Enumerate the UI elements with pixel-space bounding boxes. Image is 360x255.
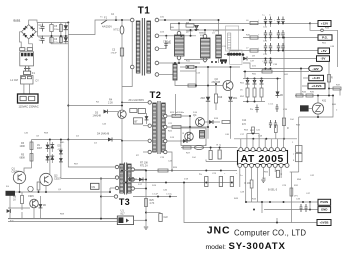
wire diode bridge x60.9 — [60, 140, 62, 179]
wire y59.5 bundle — [184, 59, 208, 61]
capacitor C1 — [41, 24, 45, 32]
svg-text:PSON: PSON — [320, 200, 328, 204]
net label PG — [318, 35, 332, 41]
wire T2 top left — [122, 101, 148, 103]
resistor R1 bleeder — [60, 23, 62, 44]
wire T3 out 3 — [135, 188, 147, 190]
svg-text:431: 431 — [322, 100, 327, 103]
resistor R16 — [253, 88, 256, 97]
wire prot rail y78.5 — [243, 78, 281, 80]
svg-text:LED: LED — [60, 142, 65, 144]
wire +3.3VS stub — [302, 85, 308, 87]
svg-text:+3.3VS: +3.3VS — [311, 84, 321, 88]
svg-text:STPR: STPR — [213, 31, 219, 33]
capacitor C27 — [209, 151, 212, 160]
svg-text:B.B1: B.B1 — [14, 19, 21, 23]
resistor R6 1K — [21, 196, 24, 204]
diode D8 on rail 4 — [243, 57, 247, 61]
wire rail x31.5 — [31, 140, 33, 169]
svg-text:10K: 10K — [262, 178, 266, 180]
T3 terminal right 3 — [131, 187, 134, 190]
second filter caps rail3 — [277, 43, 280, 51]
capacitor C6 electrolytic 220uF/200V — [50, 38, 53, 43]
wire rail2 feedback junction — [283, 37, 285, 39]
resistor R30 — [250, 180, 253, 188]
svg-text:model:: model: — [206, 244, 227, 251]
wire choke L3 top — [204, 30, 206, 35]
svg-text:P.G.: P.G. — [322, 36, 328, 40]
transformer T1 secondary winding — [147, 21, 151, 73]
wire choke to AC inlet left — [23, 84, 25, 94]
wire choke L4 top — [218, 20, 220, 35]
resistor R2 bleeder — [59, 37, 62, 43]
wire PWM bottom pin stubs — [239, 167, 241, 187]
T2 terminal right 4 — [164, 150, 167, 153]
wire T2 left mid — [143, 125, 148, 127]
wire y208 link — [8, 207, 30, 209]
svg-text:RT 10K: RT 10K — [140, 162, 148, 165]
svg-text:AT 2005: AT 2005 — [241, 154, 284, 165]
wire rail6 to +3.3V — [243, 71, 309, 73]
wire DC bus low rail — [51, 43, 68, 45]
diode D22 — [260, 80, 264, 84]
wire standby feed y105.5 — [68, 105, 122, 107]
svg-text:ZD3: ZD3 — [201, 98, 206, 100]
transformer T3 left winding — [120, 164, 124, 193]
diode D14 — [59, 150, 63, 154]
wire DC bus mid rail — [37, 35, 68, 37]
wire AC bridge top lead — [29, 20, 37, 25]
transistor Q7 — [185, 132, 194, 141]
net label +5VSB — [317, 220, 331, 226]
svg-text:JNC: JNC — [207, 225, 231, 237]
svg-text:1N: 1N — [37, 145, 40, 147]
thermistor NTC — [120, 26, 124, 34]
node drive bus x68.3 — [67, 139, 69, 141]
shield box outline — [230, 50, 242, 64]
wire feedback loop right — [299, 96, 333, 118]
wire T2 bottom-left to drive bus — [122, 140, 148, 142]
wire ground bus second line — [8, 220, 118, 222]
wire sec rail 3 to chokes — [159, 62, 200, 64]
wire +3.3V stub — [303, 77, 309, 79]
wire choke L4 bottom — [218, 58, 220, 63]
bridge rectifier B1 — [22, 25, 36, 39]
transformer T2 core — [158, 101, 160, 154]
bridge diode top-left — [23, 26, 27, 30]
U2 top pin wires — [240, 139, 242, 148]
resistor R17 — [260, 88, 263, 97]
wire Q6 to ground — [33, 208, 35, 219]
wire choke L2 bottom — [178, 60, 180, 64]
T1 terminal sec 4 — [155, 61, 159, 65]
svg-text:R21 560: R21 560 — [262, 69, 271, 71]
stub x190 rails — [190, 30, 192, 36]
fuse holder FS1 — [24, 71, 31, 74]
capacitor C3 snubber — [120, 48, 123, 56]
stub above primary feed node — [115, 16, 117, 20]
diode D6 1N4007 — [47, 142, 49, 152]
svg-text:SY-300ATX: SY-300ATX — [229, 241, 286, 252]
capacitor C5 electrolytic 220uF/200V — [50, 25, 53, 32]
svg-text:F.G: F.G — [10, 221, 14, 223]
wire Q2 emitter — [230, 90, 232, 96]
filter capacitors rail2 — [264, 30, 267, 38]
ground at x146 — [144, 227, 148, 229]
capacitor C35 — [218, 150, 221, 159]
node x146 junctions — [145, 179, 147, 181]
svg-text:CY: CY — [35, 79, 39, 83]
wire primary feed — [68, 20, 132, 35]
svg-text:SB340: SB340 — [199, 33, 206, 35]
wire T2 right 2 — [167, 126, 208, 128]
ferrite bead FB1 — [220, 59, 227, 61]
wire bridge right lead — [36, 31, 38, 33]
net label VREF dark — [300, 105, 309, 111]
wire caps left vertical — [37, 23, 39, 37]
resistor R62 above mesh — [252, 127, 255, 134]
wire Q2 collector — [230, 67, 232, 81]
snubber branch wire — [121, 20, 123, 87]
diode D7b — [51, 154, 53, 163]
U2 top pins — [239, 148, 243, 152]
svg-text:2.2K: 2.2K — [108, 101, 113, 104]
svg-text:+12V: +12V — [321, 22, 329, 26]
resistor R8 — [37, 182, 40, 190]
zener ZD4 — [40, 196, 42, 214]
diode D6b — [47, 154, 49, 163]
wire standby drop x101 — [100, 179, 102, 219]
svg-text:T1: T1 — [138, 5, 151, 16]
svg-text:115VAC 230VAC: 115VAC 230VAC — [19, 105, 39, 109]
wire drive return x175.5 — [175, 94, 177, 116]
T1 terminal sec 1 — [155, 18, 159, 22]
net label -5V — [317, 56, 330, 62]
wire y147.5 control — [181, 147, 238, 149]
svg-text:4007: 4007 — [37, 148, 43, 150]
shield box outline upper — [226, 26, 239, 51]
wire drop x10 — [9, 192, 11, 219]
resistor R12 rail1 — [250, 21, 258, 24]
zener ZD1 — [228, 97, 232, 101]
net label PS-ON — [318, 199, 331, 205]
wire y71 aux — [180, 70, 196, 72]
svg-text:4148: 4148 — [58, 149, 64, 151]
wire secondary top rail — [159, 19, 219, 21]
svg-text:100K: 100K — [20, 145, 26, 148]
resistor R5 680K — [30, 154, 33, 162]
transformer T1 primary winding — [136, 21, 140, 73]
wire -12V drop x301 — [300, 69, 302, 96]
svg-text:C14: C14 — [242, 120, 247, 122]
wire choke L2 top — [178, 23, 180, 31]
resistor R34 — [296, 94, 303, 97]
svg-text:T3: T3 — [119, 197, 130, 207]
wire Q3 emitter — [45, 186, 47, 192]
filter capacitors rail4 — [264, 58, 267, 66]
svg-text:+3.3V: +3.3V — [312, 76, 320, 80]
ground pin5 — [261, 180, 265, 182]
resistor R19 — [214, 94, 217, 103]
T3 terminal right 1 — [131, 168, 134, 171]
bridge diode bottom-left — [23, 33, 27, 37]
svg-text:4.7K: 4.7K — [150, 203, 155, 205]
resistor R28 above IC — [274, 125, 277, 133]
svg-text:L1 CM: L1 CM — [10, 78, 18, 82]
wire T2 right 3 — [167, 140, 190, 142]
resistor R29 on feedback vertical — [282, 118, 285, 126]
wire secondary mid rail — [171, 29, 243, 31]
resistor R13 rail2 — [250, 36, 258, 39]
diode D9 — [246, 80, 250, 84]
node rail1 to +12V box — [309, 22, 311, 24]
component box BT A2 — [134, 118, 143, 124]
wire TL431 left — [309, 108, 313, 110]
diode D1 — [65, 23, 67, 37]
svg-text:C5027: C5027 — [54, 178, 62, 181]
T3 terminal left 1 — [115, 165, 118, 168]
svg-text:R 10K: R 10K — [245, 183, 252, 185]
resistor R20 — [222, 121, 230, 124]
svg-text:1uF: 1uF — [39, 40, 43, 42]
wire sec rail 4 — [159, 74, 173, 76]
wire T1 primary bottom to drive — [122, 69, 132, 87]
svg-text:ZD: ZD — [280, 95, 283, 97]
resistor R26 — [158, 169, 168, 172]
net label +12V — [318, 21, 331, 27]
wire control rail y182.5 — [122, 182, 232, 184]
resistor R45 — [130, 109, 137, 113]
svg-text:FG: FG — [6, 186, 9, 188]
wire choke L3 bottom — [204, 62, 206, 64]
svg-text:BT: BT — [135, 120, 139, 123]
wire rail3 left end — [230, 50, 243, 52]
diode D13 — [183, 139, 187, 143]
T2 terminal left 4 — [148, 150, 151, 153]
svg-text:R25: R25 — [150, 200, 155, 202]
wire Q1 base — [24, 168, 32, 173]
wire T2 right 4 to control rail — [167, 152, 172, 171]
svg-text:1K: 1K — [13, 199, 16, 202]
wire output rail1 left segment — [171, 23, 310, 30]
capacitor CX mark — [25, 58, 28, 61]
mesh above IC — [247, 133, 259, 135]
wire right feedback drop x298.7 — [298, 117, 300, 172]
diode D11 — [209, 120, 213, 124]
transistor Q6 C945 — [30, 199, 39, 208]
node primary feed junction — [115, 19, 117, 21]
wire x291.4 column — [290, 172, 292, 223]
wire mid vertical x208 — [207, 67, 209, 139]
choke L3 — [201, 38, 211, 58]
resistor R14 rail3 — [250, 49, 258, 52]
transformer T1 core — [142, 18, 144, 76]
wire T3 feed 1 — [68, 140, 115, 168]
wire cap C22 branch — [146, 212, 161, 214]
resistor R35 — [306, 94, 313, 97]
capacitor C16 pair — [269, 120, 272, 128]
connector plug symbol — [24, 66, 30, 71]
U2 bottom pins — [238, 163, 242, 167]
regulator U3 TL431 — [312, 103, 323, 114]
capacitor C34 — [276, 104, 279, 112]
wire y161.5 control — [206, 161, 238, 163]
svg-text:+5V: +5V — [321, 49, 327, 53]
fuse F1 on primary feed — [101, 20, 107, 24]
T2 terminal left 2 — [148, 124, 151, 127]
wire caps mid vertical — [50, 36, 52, 44]
svg-text:R 1u: R 1u — [217, 145, 222, 147]
svg-text:C 0.1: C 0.1 — [268, 104, 274, 106]
svg-text:NTC: NTC — [114, 29, 119, 32]
wire control left vertical — [121, 141, 123, 183]
wire rail x49.9 — [49, 140, 51, 174]
svg-text:680K: 680K — [20, 157, 26, 160]
wire control rail y170.5 — [122, 170, 237, 172]
wire y67 rail — [180, 66, 240, 68]
svg-text:-12V: -12V — [312, 67, 318, 71]
transistor Q2 2SC945 — [223, 81, 233, 91]
wire rail1 sense drop — [310, 23, 321, 30]
wire left AC bus vertical — [67, 23, 69, 140]
wire L5 bottom link — [175, 80, 186, 86]
bridge diode top-right — [30, 26, 34, 30]
transistor Q1 C5027 — [13, 171, 25, 183]
svg-text:RT1.2A: RT1.2A — [140, 165, 148, 168]
AC inlet connector — [18, 94, 39, 103]
optocoupler U1 — [117, 216, 133, 225]
T2 terminal right 3 — [164, 139, 167, 142]
wire DC bus top rail — [37, 22, 68, 24]
svg-text:+5VSB: +5VSB — [319, 220, 328, 224]
resistor R25 — [145, 199, 148, 207]
svg-text:1uF: 1uF — [39, 28, 43, 30]
wire TL431 top — [317, 96, 319, 103]
wire output rail 4 (-5V) — [248, 58, 317, 60]
resistor R27 — [183, 146, 191, 149]
choke L5 aux — [173, 64, 177, 80]
wire Q5 emitter to drive bus — [121, 118, 123, 140]
diode D17 — [139, 178, 143, 182]
T2 terminal right 1 — [164, 114, 167, 117]
sense winding inside shield — [228, 33, 231, 49]
connector label box — [91, 183, 100, 189]
filter capacitors rail1 — [264, 17, 267, 25]
zener ZD2 — [277, 79, 279, 99]
resistor NR2 — [27, 48, 32, 51]
bridge diode bottom-right — [30, 33, 34, 37]
svg-text:SB340: SB340 — [186, 31, 193, 33]
net label GND — [318, 207, 331, 213]
resistor R37 — [333, 87, 341, 90]
wire T1 primary left connections — [131, 22, 133, 65]
wire Q3 base feed — [49, 173, 51, 176]
capacitor C24 — [219, 177, 222, 187]
wire Q1 emitter — [19, 184, 21, 192]
wire stub x166 — [165, 36, 167, 39]
svg-text:R19: R19 — [218, 97, 223, 99]
net label PROT — [6, 191, 16, 196]
svg-text:4A/250V: 4A/250V — [102, 25, 112, 29]
coupling transformer box — [200, 131, 205, 139]
choke winding left — [21, 77, 25, 79]
second filter caps rail2 — [277, 30, 280, 38]
toroid choke L8 horizontal — [227, 53, 244, 56]
wire emitter bus y192 — [10, 191, 110, 193]
capacitor marks bottom right — [300, 204, 303, 212]
wire PWM top bus y138.8 — [234, 138, 297, 140]
wire feedback bottom — [290, 171, 299, 173]
diode D7 1N4007 — [51, 142, 53, 152]
T3 terminal right 2 — [131, 178, 134, 181]
resistor R9 — [186, 65, 194, 68]
wire tick x277 on loop — [276, 218, 278, 223]
svg-text:GND: GND — [321, 208, 328, 212]
varistor elements — [21, 53, 23, 56]
driver stage frame — [181, 128, 206, 146]
T1 terminal top-left — [130, 18, 134, 22]
resistor R38 — [188, 84, 196, 87]
capacitor C23 — [205, 177, 208, 187]
transformer T2 left winding — [153, 103, 157, 152]
wire ground bus — [8, 218, 118, 220]
wire Q5 base stub — [108, 111, 118, 113]
wire T2 left 4 stub — [143, 151, 148, 153]
resistor R15 — [246, 88, 249, 97]
svg-text:ZD 2.2uF/50Hz: ZD 2.2uF/50Hz — [129, 100, 145, 102]
wire x262 stub — [261, 202, 263, 213]
diode D16 — [7, 209, 11, 213]
T1 terminal sec 2 — [155, 34, 159, 38]
diode D12 — [146, 113, 148, 124]
wire sec terminal 3 branch — [159, 41, 166, 49]
wire standby top y196.5 — [133, 196, 177, 198]
choke L4 — [216, 35, 222, 58]
wire TL431 bottom — [317, 114, 319, 117]
wire bridge bottom leg — [29, 39, 33, 48]
wire aux rail y85.5 — [186, 85, 223, 87]
wire L5 top link — [174, 63, 176, 64]
IC U2 AT2005 body — [238, 151, 288, 165]
svg-text:D4 1N4148: D4 1N4148 — [97, 133, 110, 136]
resistor R21 — [262, 70, 272, 73]
diode D2 — [65, 36, 67, 44]
capacitor C36 small circle — [28, 186, 33, 191]
resistor R23 — [172, 115, 181, 118]
T1 terminal bottom-left — [130, 65, 134, 69]
T3 terminal left 3 — [115, 186, 118, 189]
diode D18 — [129, 177, 133, 181]
svg-text:1N4148: 1N4148 — [93, 115, 102, 118]
wire T3 out 2 — [135, 179, 147, 181]
T1 terminal sec 5 — [155, 73, 159, 77]
resistor R24 — [172, 126, 181, 129]
diode D15 — [59, 158, 63, 162]
T3 spare terminal — [114, 195, 117, 198]
resistor R46 — [138, 109, 145, 114]
wire feedback top y95.5 — [295, 95, 333, 97]
wire T3 feed 3 — [110, 187, 115, 189]
net label -12V ellipse — [309, 66, 322, 71]
capacitor C22 — [159, 214, 162, 222]
svg-text:C945: C945 — [28, 195, 34, 198]
wire bottom bus A y202 — [246, 201, 318, 203]
svg-text:Computer CO., LTD: Computer CO., LTD — [234, 229, 306, 238]
capacitor C28 — [276, 170, 279, 177]
wire x329 to TL431 rail — [328, 89, 330, 96]
diode D5 — [194, 25, 198, 29]
wire bottom loop — [184, 183, 317, 223]
